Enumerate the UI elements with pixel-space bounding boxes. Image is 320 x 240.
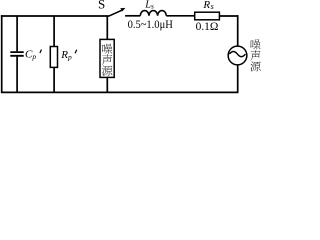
- AC noise source circle: [228, 46, 247, 65]
- inductor Ls coil: [140, 11, 166, 16]
- prime of Cp': [40, 50, 42, 54]
- noise source box text: zao: [102, 44, 112, 76]
- switch arrowhead: [120, 8, 125, 12]
- wire top rail: [1, 15, 109, 17]
- box text: yuan: [102, 65, 112, 75]
- noise source box: [100, 39, 114, 77]
- wire source to bottom: [237, 65, 239, 92]
- prime of Rp': [75, 50, 77, 54]
- switch S blade: [109, 10, 122, 16]
- capacitor Cp' top lead: [16, 16, 18, 51]
- wire left rail: [1, 15, 3, 92]
- svg-text:0.1Ω: 0.1Ω: [196, 19, 219, 33]
- box text: sheng: [102, 54, 112, 64]
- svg-text:Ls: Ls: [144, 0, 154, 11]
- svg-text:S: S: [98, 0, 105, 12]
- resistor Rp' leads: [53, 16, 55, 92]
- right noise source text: zao: [250, 39, 260, 71]
- sine wave inside source: [229, 52, 245, 57]
- wire Rs to corner: [219, 15, 238, 17]
- svg-text:0.5~1.0μH: 0.5~1.0μH: [128, 17, 173, 31]
- noise source box leads: [106, 16, 108, 92]
- wire bottom rail: [1, 91, 239, 93]
- wire after switch: [125, 15, 140, 17]
- right text: yuan: [250, 61, 260, 71]
- wire right down to source: [237, 15, 239, 46]
- capacitor Cp' plates: [10, 52, 23, 56]
- wire inductor to Rs: [166, 15, 194, 17]
- resistor Rp' body: [50, 47, 57, 68]
- right text: sheng: [251, 50, 261, 60]
- resistor Rs body: [195, 12, 220, 20]
- svg-text:Rs: Rs: [202, 0, 213, 11]
- capacitor Cp' bottom lead: [16, 57, 18, 93]
